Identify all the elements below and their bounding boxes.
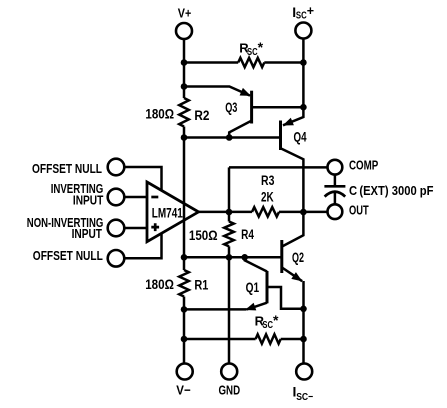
node junction at 303.4,107.2	[300, 104, 307, 111]
op-amp LM741	[147, 182, 199, 242]
resistor R2	[179, 98, 189, 127]
svg-text:INPUT: INPUT	[73, 193, 103, 208]
node junction at 229.2,137.5	[226, 134, 233, 141]
node junction at 303.4,212	[300, 209, 307, 216]
transistor Q4	[279, 121, 282, 151]
wire V+ rail top	[183, 39, 186, 98]
terminal COMP	[328, 160, 343, 175]
wire top RSC line right	[264, 61, 303, 64]
wire top RSC line left	[184, 61, 238, 64]
node junction at 184,62.5	[181, 59, 188, 66]
resistor RSC* (bottom)	[256, 334, 281, 343]
svg-text:R2: R2	[194, 108, 209, 123]
op-amp plus input mark	[151, 223, 159, 231]
wire Q2 collector lead	[282, 212, 304, 247]
svg-text:180Ω: 180Ω	[145, 277, 174, 292]
wire Q1 collector lead	[245, 257, 267, 271]
terminal INVERTING INPUT	[108, 189, 125, 206]
svg-text:180Ω: 180Ω	[145, 106, 174, 121]
wire Q4 emitter lead	[283, 107, 303, 125]
terminal V+	[176, 23, 192, 39]
wire Q2 emitter lead	[282, 267, 302, 281]
wire left rail to Q2 base	[184, 256, 282, 259]
svg-text:*: *	[258, 39, 264, 55]
node junction at 184,339	[181, 336, 188, 343]
wire Q3 emitter lead	[184, 87, 250, 96]
wire inverting input	[124, 196, 147, 199]
terminal NON-INVERTING INPUT	[108, 220, 125, 237]
transistor Q1	[266, 271, 269, 303]
svg-text:INPUT: INPUT	[72, 226, 102, 241]
resistor RSC* (top)	[238, 58, 264, 67]
wire Q3 base lead	[252, 106, 304, 109]
svg-text:OFFSET NULL: OFFSET NULL	[32, 161, 102, 176]
node junction at 184,257.3	[181, 254, 188, 261]
wire Q4 collector lead	[281, 148, 304, 212]
op-amp minus input mark	[151, 196, 158, 199]
wire Q2 emitter vertical to ISC-	[302, 281, 305, 363]
wire non-inverting input	[124, 227, 147, 230]
wire GND vertical	[228, 257, 231, 362]
node junction at 303.5,308.8	[300, 306, 307, 313]
node junction at 184,137.5	[181, 134, 188, 141]
resistor R3	[252, 207, 279, 216]
terminal ISC-	[296, 364, 312, 380]
wire Q1 emitter to rail	[184, 308, 246, 311]
svg-text:2K: 2K	[261, 189, 274, 204]
svg-text:LM741: LM741	[152, 205, 183, 220]
terminal OFFSET NULL (bottom)	[108, 250, 125, 267]
wire offset null top	[124, 167, 161, 191]
svg-text:V−: V−	[176, 383, 191, 398]
node junction at 229,257.3	[226, 254, 233, 261]
svg-text:150Ω: 150Ω	[189, 228, 218, 243]
wire corner down to output node	[228, 167, 231, 212]
wire R3 to OUT	[279, 211, 328, 214]
wire Q1 emitter lead	[246, 303, 267, 310]
svg-text:SC: SC	[247, 46, 258, 58]
svg-text:Q2: Q2	[292, 250, 304, 265]
transistor Q2	[280, 240, 283, 273]
svg-text:*: *	[273, 312, 279, 328]
terminal GND	[221, 364, 237, 380]
resistor R4	[224, 222, 234, 247]
node junction at 229,212	[226, 209, 233, 216]
terminal OUT	[328, 204, 343, 219]
wire R4 bottom lead	[228, 246, 231, 257]
wire ISC+ rail	[302, 39, 305, 107]
transistor Q3	[250, 91, 253, 124]
wire R2-bottom to Q4 base	[184, 136, 281, 139]
svg-text:GND: GND	[219, 383, 241, 398]
node junction at 303.4,62.5	[300, 59, 307, 66]
terminal V-	[177, 364, 193, 380]
wire Q1 base lead	[267, 287, 304, 309]
svg-text:OUT: OUT	[349, 203, 369, 218]
wire R4 top lead	[228, 212, 231, 222]
node junction at 184,86.5	[181, 83, 188, 90]
wire offset null bottom	[124, 233, 161, 258]
svg-text:V+: V+	[178, 5, 192, 20]
terminal OFFSET NULL (top)	[108, 159, 125, 176]
svg-text:Q1: Q1	[246, 280, 260, 295]
capacitor C(EXT)	[334, 175, 337, 186]
wire left rail middle	[183, 127, 186, 271]
node junction at 303.5,339	[300, 336, 307, 343]
node junction at 244.7,257.3	[241, 254, 248, 261]
svg-text:R3: R3	[261, 173, 275, 188]
svg-text:OFFSET NULL: OFFSET NULL	[33, 248, 103, 263]
svg-text:SC: SC	[262, 319, 273, 331]
svg-text:C (EXT) 3000 pF: C (EXT) 3000 pF	[349, 183, 434, 198]
wire Q3 collector lead	[229, 121, 251, 138]
wire left rail bottom	[183, 297, 186, 363]
svg-text:Q4: Q4	[294, 129, 307, 144]
svg-text:COMP: COMP	[349, 158, 379, 173]
wire bottom RSC line left	[184, 338, 256, 341]
wire COMP line	[229, 166, 328, 169]
svg-text:Q3: Q3	[225, 100, 238, 115]
svg-text:SC−: SC−	[296, 391, 313, 403]
wire bottom RSC line right	[281, 338, 304, 341]
node junction at 184,309.4	[181, 306, 188, 313]
resistor R1	[179, 270, 189, 297]
svg-text:R4: R4	[241, 227, 254, 242]
svg-text:R1: R1	[194, 277, 208, 292]
svg-text:+: +	[307, 4, 314, 18]
wire op-amp output	[199, 211, 253, 214]
svg-text:SC: SC	[296, 10, 307, 22]
terminal ISC+	[295, 23, 311, 39]
